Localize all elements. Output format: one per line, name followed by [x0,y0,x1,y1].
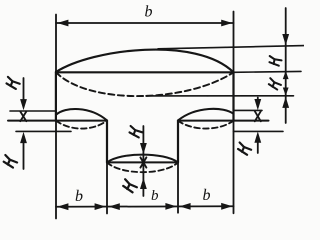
wire stem right side and extension [177,121,179,163]
wire bottom dimension line [56,205,234,208]
label k stem lower [122,179,138,193]
wire cap chord line [56,71,234,73]
wire right shoulder dashed arc [178,121,234,129]
wire left shoulder dashed arc [56,121,107,129]
wire left shoulder chord and margin line [8,120,107,122]
wire stem left side and extension [106,121,108,163]
label k right shoulder [237,142,252,155]
wire left margin line upper [10,110,56,112]
wire center allowance arrows [142,126,144,196]
wire left allowance arrows [23,78,25,104]
wire right allowance dimension line [285,8,287,123]
wire top dimension line b [56,22,234,24]
wire right margin line lower [234,130,284,132]
svg-text:b: b [145,4,153,21]
wire extension line at cap arc peak [158,46,304,49]
svg-text:b: b [203,187,211,204]
wire left margin line lower [16,130,71,132]
wire left shoulder solid arc [56,109,107,120]
wire cap top solid arc [56,50,234,73]
wire cap dashed arc [56,72,234,96]
wire right shoulder chord and margin line [178,120,269,122]
wire right shoulder allowance arrows [257,98,259,104]
label k stem upper [129,126,143,138]
wire right shoulder solid arc [178,109,234,121]
label k right middle [268,78,282,90]
svg-text:b: b [75,188,83,205]
label k right upper [269,56,281,66]
label k lower-left [3,155,18,168]
wire cap left edge and extension line [55,15,57,73]
label k upper-left [6,77,21,90]
wire cap right edge and extension line [233,12,235,73]
wire right margin line upper [234,109,263,111]
wire stem dashed arc [107,162,178,172]
svg-text:b: b [151,188,159,204]
wire extension line at cap dashed bottom [146,95,294,97]
wire stem solid arc [107,155,178,163]
wire stem chord [107,161,178,163]
